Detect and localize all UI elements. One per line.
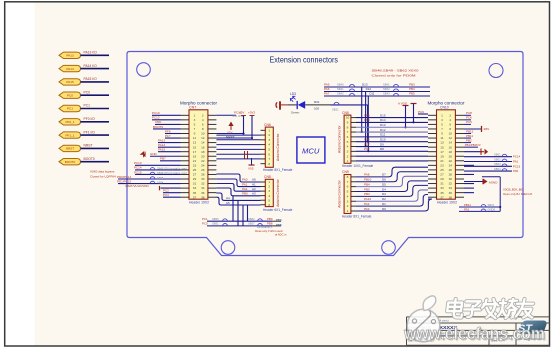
svg-text:11: 11 (193, 136, 196, 140)
svg-text:5: 5 (441, 123, 443, 127)
CN7 pin stub left (181, 137, 190, 139)
CN10 pin stub left (428, 114, 437, 116)
CN10 pin stub right (455, 187, 464, 189)
watermark glyph 0 (446, 299, 463, 317)
CN10 pin stub left (428, 128, 437, 130)
CN10 pin stub right (455, 123, 464, 125)
wire CN7 left PF6 (165, 133, 181, 135)
svg-text:PA15: PA15 (66, 80, 74, 84)
SB right PC14 (464, 156, 512, 158)
svg-text:D8: D8 (380, 147, 384, 151)
svg-text:3: 3 (268, 138, 270, 142)
wire vertical from LED (367, 105, 369, 142)
SB row PC1 (207, 220, 272, 222)
CN5 pin stub (351, 155, 356, 157)
svg-text:SB48 Off if crystal is used: SB48 Off if crystal is used (157, 171, 187, 175)
svg-text:PC3: PC3 (163, 193, 169, 197)
svg-text:4: 4 (268, 194, 270, 198)
svg-text:4: 4 (202, 118, 204, 122)
svg-text:SB01: SB01 (494, 153, 501, 157)
wire row5 to +3V3 (216, 137, 252, 139)
svg-text:SB56: SB56 (212, 217, 219, 221)
svg-text:PD1/PC15: PD1/PC15 (117, 179, 132, 183)
svg-text:PB11: PB11 (464, 203, 471, 207)
SB right PA0 (464, 170, 512, 172)
svg-text:7: 7 (441, 127, 443, 131)
svg-text:D11: D11 (380, 133, 386, 137)
svg-text:SB48,SB49 - SB62 X0X0: SB48,SB49 - SB62 X0X0 (372, 69, 419, 73)
svg-text:32: 32 (201, 182, 205, 186)
SB row PC0 (207, 225, 272, 227)
svg-text:PC0: PC0 (202, 222, 208, 226)
svg-text:MCU: MCU (302, 147, 320, 156)
CN9 pin stub (351, 210, 356, 212)
svg-text:31: 31 (440, 182, 444, 186)
CN8 pin stub (261, 195, 266, 197)
CN7 pin stub left (181, 114, 190, 116)
svg-text:19: 19 (440, 154, 444, 158)
svg-text:23: 23 (440, 163, 444, 167)
svg-text:Close only if I2C1 used: Close only if I2C1 used (255, 229, 283, 233)
svg-text:CN7: CN7 (189, 105, 196, 109)
svg-text:A2: A2 (252, 187, 256, 191)
svg-text:10: 10 (201, 132, 205, 136)
CN5 pin stub (351, 136, 356, 138)
CN10 pin stub left (428, 164, 437, 166)
CN7 pin stub left (181, 142, 190, 144)
PB1/PB15 row (464, 146, 478, 148)
wire CN5 row (356, 146, 428, 148)
svg-text:BOOT0: BOOT0 (84, 157, 95, 161)
svg-text:27: 27 (440, 173, 444, 177)
svg-text:D13: D13 (362, 83, 368, 87)
wire CN10 right (464, 164, 474, 166)
power flag U5V (228, 122, 233, 127)
SB bottom row PA2 (459, 210, 500, 212)
svg-text:9: 9 (194, 132, 196, 136)
svg-text:PA10: PA10 (364, 197, 371, 201)
svg-text:17: 17 (193, 150, 197, 154)
wire CN7 left PA13 (158, 142, 181, 144)
svg-text:8: 8 (449, 127, 451, 131)
svg-text:PC14: PC14 (513, 155, 521, 159)
SB bridge row D12 (324, 91, 430, 93)
power symbol at LED (276, 102, 277, 107)
svg-text:25: 25 (440, 168, 444, 172)
CN7 pin stub right (208, 151, 217, 153)
CN7 pin stub left (181, 146, 190, 148)
svg-text:D2: D2 (382, 197, 386, 201)
svg-text:D13: D13 (380, 123, 386, 127)
svg-text:100: 100 (314, 106, 319, 110)
svg-text:PF7: PF7 (165, 134, 171, 138)
svg-text:SB03: SB03 (494, 162, 501, 166)
svg-text:PA2: PA2 (364, 202, 370, 206)
svg-text:33: 33 (193, 186, 197, 190)
CN7 pin stub left (181, 173, 190, 175)
CN7 pin stub right (208, 183, 217, 185)
CN7 pin stub left (181, 133, 190, 135)
svg-text:PA13 I/O: PA13 I/O (84, 51, 98, 55)
svg-text:8: 8 (347, 175, 349, 179)
CN7 pin stub right (208, 178, 217, 180)
wire CN9 D3 (356, 185, 428, 196)
svg-text:PA14: PA14 (158, 143, 165, 147)
svg-text:Header 10X1_Female: Header 10X1_Female (342, 164, 373, 168)
svg-text:22: 22 (201, 159, 205, 163)
svg-text:Header 8X1_Female: Header 8X1_Female (263, 168, 293, 172)
svg-text:16: 16 (449, 145, 453, 149)
port flag PF0_1 (59, 119, 81, 125)
CN7 pin stub left (181, 119, 190, 121)
svg-text:PB6: PB6 (364, 113, 370, 117)
wire CN7 left PC15 (135, 173, 181, 175)
svg-text:PF0_1: PF0_1 (65, 120, 74, 124)
wire vertical D13 (361, 87, 363, 132)
svg-text:BOOT0: BOOT0 (153, 125, 164, 129)
CN7 pin stub right (208, 114, 217, 116)
wire PB0 A3 (216, 188, 260, 196)
wire CN7 left PA14 (158, 146, 181, 148)
wire CN7 left PC2 (163, 192, 181, 194)
svg-text:4: 4 (268, 143, 270, 147)
svg-text:36: 36 (201, 191, 205, 195)
CN10 pin stub left (428, 137, 437, 139)
CN10 pin stub right (455, 164, 464, 166)
svg-text:26: 26 (449, 168, 453, 172)
CN10 pin stub left (428, 169, 437, 171)
svg-text:5: 5 (347, 190, 349, 194)
svg-text:PB0: PB0 (242, 192, 248, 196)
SB21 bridge (330, 104, 368, 106)
svg-text:PC0: PC0 (84, 90, 91, 94)
wire vertical to SB cluster (232, 196, 234, 221)
CN7 pin stub right (208, 142, 217, 144)
svg-text:LD3: LD3 (290, 92, 296, 96)
CN6 pin stub (261, 153, 266, 155)
wire PA4 A2 (216, 184, 260, 192)
svg-text:PC14: PC14 (134, 166, 142, 170)
CN10 pin stub left (428, 178, 437, 180)
connector CN10 body (437, 110, 456, 199)
svg-text:13: 13 (193, 141, 197, 145)
CN10 pin stub left (428, 196, 437, 198)
CN6 pin stub (261, 144, 266, 146)
svg-text:Header 19X2: Header 19X2 (189, 200, 209, 204)
svg-text:10: 10 (449, 132, 453, 136)
svg-text:PA14 I/O: PA14 I/O (84, 64, 98, 68)
svg-text:PB8: PB8 (276, 223, 282, 227)
CN6 pin stub (261, 139, 266, 141)
svg-text:VDD: VDD (155, 120, 162, 124)
CN8 pin stub (261, 204, 266, 206)
CN10 pin stub left (428, 133, 437, 135)
svg-text:2: 2 (202, 113, 204, 117)
svg-text:D9: D9 (380, 142, 384, 146)
svg-text:B52 JP6H: B52 JP6H (233, 114, 245, 118)
svg-text:12: 12 (449, 136, 453, 140)
svg-text:38: 38 (201, 195, 205, 199)
CN7 pin stub right (208, 133, 217, 135)
CN10 pin stub right (455, 146, 464, 148)
CN5 pin stub (351, 131, 356, 133)
wire CN7 left PD0/PC14 (118, 178, 181, 180)
wire CN9 D1 (356, 195, 428, 207)
svg-text:A VDD: A VDD (398, 101, 408, 105)
CN6 pin stub (261, 134, 266, 136)
mounting hole top-right (489, 64, 503, 78)
svg-text:7: 7 (347, 180, 349, 184)
wire CN7 left PB7 (160, 160, 181, 162)
CN5 pin stub (351, 146, 356, 148)
wire CN5 row (356, 160, 428, 162)
svg-text:www.elecfans.com: www.elecfans.com (403, 325, 545, 343)
wire CN10 right PB12 (464, 133, 471, 135)
svg-text:3: 3 (441, 118, 443, 122)
svg-text:29: 29 (193, 177, 197, 181)
svg-text:2: 2 (449, 113, 451, 117)
svg-text:34: 34 (449, 186, 453, 190)
wire CN5 row (356, 131, 428, 133)
svg-text:1: 1 (441, 113, 443, 117)
svg-text:12: 12 (201, 136, 205, 140)
SB bridge row D13 (324, 86, 430, 88)
wire CN9 D7 (356, 167, 428, 177)
wire CN10 right PB2 (464, 142, 471, 144)
svg-text:3: 3 (194, 118, 196, 122)
svg-text:VSS: VSS (248, 167, 254, 171)
svg-text:PB10: PB10 (364, 178, 372, 182)
svg-text:PA0: PA0 (242, 178, 248, 182)
CN10 pin stub right (455, 173, 464, 175)
svg-text:4: 4 (347, 194, 349, 198)
svg-text:6: 6 (347, 185, 349, 189)
capacitor C30 (244, 151, 246, 159)
svg-text:5: 5 (268, 198, 270, 202)
wire CN9 D0 (356, 199, 432, 211)
wire CN5 row (356, 121, 428, 123)
resistor R31 labels (305, 104, 330, 106)
svg-text:6: 6 (268, 203, 270, 207)
SB bottom row PB11 (459, 206, 500, 208)
wire CN7 PC11 (216, 114, 236, 116)
svg-text:PA1: PA1 (242, 182, 248, 186)
wire PA1 A1 (216, 179, 260, 187)
CN7 pin stub right (208, 155, 217, 157)
svg-text:18: 18 (201, 150, 205, 154)
svg-text:28: 28 (201, 173, 205, 177)
CN7 pin stub left (181, 169, 190, 171)
svg-text:PB7: PB7 (160, 157, 166, 161)
SB bridge row D11 (324, 95, 430, 97)
CN10 pin stub right (455, 151, 464, 153)
wire CN10 right (464, 173, 474, 175)
svg-text:NRST: NRST (66, 147, 75, 151)
svg-text:D7: D7 (382, 173, 386, 177)
svg-text:SB04: SB04 (494, 167, 501, 171)
port flag PA14 (59, 65, 81, 71)
svg-text:25: 25 (193, 168, 197, 172)
CN7 pin stub left (181, 183, 190, 185)
svg-text:37: 37 (440, 195, 444, 199)
svg-text:31: 31 (193, 182, 197, 186)
svg-text:Arduino Connector: Arduino Connector (338, 179, 342, 207)
svg-text:6: 6 (347, 135, 349, 139)
svg-text:PF1 I/O: PF1 I/O (84, 130, 96, 134)
wire CN5 row (356, 155, 428, 157)
svg-text:Arduino Connector: Arduino Connector (276, 133, 280, 161)
svg-text:BOOT0: BOOT0 (65, 160, 76, 164)
svg-text:D4: D4 (382, 187, 386, 191)
connector CN7 body (189, 110, 208, 199)
svg-text:PA9: PA9 (364, 147, 370, 151)
svg-text:PB2: PB2 (466, 138, 472, 142)
CN10 pin stub right (455, 142, 464, 144)
CN8 pin stub (261, 190, 266, 192)
svg-text:D11: D11 (369, 92, 375, 96)
svg-text:Closed only for PD0M: Closed only for PD0M (372, 74, 417, 78)
CN9 pin stub (351, 186, 356, 188)
svg-text:PA15: PA15 (158, 148, 165, 152)
svg-text:PF6: PF6 (165, 129, 171, 133)
svg-text:CN6: CN6 (264, 123, 271, 127)
svg-text:4: 4 (347, 145, 349, 149)
svg-text:PA2: PA2 (464, 207, 470, 211)
wire vertical D11 (367, 96, 369, 151)
svg-text:PA14: PA14 (66, 67, 74, 71)
CN10 pin stub right (455, 160, 464, 162)
CN7 pin stub left (181, 123, 190, 125)
wire CN7 left PA15 (158, 151, 181, 153)
wire from flag PC1 (81, 108, 110, 110)
svg-text:+5V: +5V (239, 111, 244, 115)
CN10 pin stub right (455, 169, 464, 171)
svg-text:8: 8 (268, 162, 270, 166)
svg-text:PC9: PC9 (418, 110, 424, 114)
CN5 pin stub (351, 160, 356, 162)
svg-text:11: 11 (440, 136, 443, 140)
svg-text:PC7: PC7 (364, 142, 370, 146)
CN10 pin stub right (455, 155, 464, 157)
svg-text:Arduino Connector: Arduino Connector (276, 178, 280, 206)
svg-text:19: 19 (193, 154, 197, 158)
svg-text:CN10: CN10 (440, 106, 449, 110)
svg-text:X0X0 data bypass: X0X0 data bypass (90, 170, 115, 174)
CN10 pin stub left (428, 119, 437, 121)
svg-text:PF1_1: PF1_1 (65, 133, 74, 137)
wire CN7 left PC10 (152, 114, 181, 116)
svg-text:D10: D10 (380, 138, 386, 142)
svg-text:A0: A0 (252, 178, 256, 182)
wire CN7 left PD1/PC15 (118, 183, 181, 185)
wire CN5 row (356, 150, 428, 152)
wire CN5 row (356, 117, 428, 119)
CN10 pin stub right (455, 178, 464, 180)
wire CN7 left PC3 (163, 196, 181, 198)
CN7 pin stub left (181, 178, 190, 180)
wire CN5 row (356, 141, 428, 143)
svg-text:2: 2 (268, 185, 270, 189)
CN9 pin stub (351, 200, 356, 202)
CN10 pin stub left (428, 146, 437, 148)
CN10 pin stub left (428, 192, 437, 194)
svg-text:GND8: GND8 (488, 207, 496, 211)
svg-text:14: 14 (449, 141, 453, 145)
CN7 pin stub right (208, 196, 217, 198)
svg-text:D0: D0 (382, 207, 386, 211)
svg-text:SB55: SB55 (157, 176, 164, 180)
svg-text:5: 5 (268, 147, 270, 151)
wire CN7 left VBAT (161, 187, 181, 189)
svg-text:38: 38 (449, 195, 453, 199)
svg-text:Extension connectors: Extension connectors (270, 56, 339, 65)
wire from flag PF1_1 (81, 134, 110, 136)
wire vertical to SB cluster (247, 205, 249, 221)
CN5 pin stub (351, 117, 356, 119)
svg-text:27: 27 (193, 173, 197, 177)
CN7 pin stub left (181, 160, 190, 162)
svg-text:CN9: CN9 (342, 170, 349, 174)
svg-text:SB62: SB62 (248, 217, 255, 221)
SB right PA1 (464, 161, 512, 163)
svg-text:SB41: SB41 (337, 87, 344, 91)
CN10 pin stub right (455, 114, 464, 116)
svg-text:A3: A3 (252, 192, 256, 196)
CN8 pin stub (261, 186, 266, 188)
CN7 pin stub left (181, 155, 190, 157)
GND symbol right (464, 151, 481, 153)
svg-text:6: 6 (202, 123, 204, 127)
CN7 pin stub right (208, 128, 217, 130)
CN10 pin stub right (455, 183, 464, 185)
svg-text:SB21: SB21 (332, 108, 339, 112)
CN10 pin stub right (455, 119, 464, 121)
port flag NRST (59, 145, 81, 151)
svg-text:35: 35 (193, 191, 197, 195)
wire CN10 right PC6 (464, 119, 471, 121)
E5V power right (464, 128, 481, 130)
CN10 pin stub left (428, 160, 437, 162)
svg-text:PB6: PB6 (364, 138, 370, 142)
svg-text:PA13: PA13 (158, 138, 165, 142)
wire CN10 right PB11 (464, 137, 471, 139)
svg-text:PC5: PC5 (466, 120, 472, 124)
CN7 pin stub right (208, 160, 217, 162)
svg-text:D6: D6 (382, 178, 386, 182)
SB right PC15 (464, 165, 512, 167)
svg-text:PC15: PC15 (513, 164, 521, 168)
svg-text:23: 23 (193, 163, 197, 167)
svg-text:7: 7 (194, 127, 196, 131)
svg-text:SB54: SB54 (157, 181, 164, 185)
svg-text:7: 7 (347, 130, 349, 134)
wire from flag PA14 (81, 68, 110, 70)
svg-text:6: 6 (268, 152, 270, 156)
CN7 pin stub left (181, 187, 190, 189)
wire from flag PF0_1 (81, 121, 110, 123)
wire CN7 left VDD (155, 123, 181, 125)
svg-text:SB01: SB01 (488, 203, 495, 207)
svg-text:PD0/PC14: PD0/PC14 (117, 175, 132, 179)
MCU U5 (297, 137, 325, 163)
CN7 pin stub right (208, 192, 217, 194)
svg-text:SB49 Off if crystal is used: SB49 Off if crystal is used (157, 167, 187, 171)
wire AGND net loop (482, 176, 500, 178)
title block (407, 317, 550, 345)
svg-text:Morpho connector: Morpho connector (180, 100, 217, 105)
svg-text:Open only B-I F0E3 HX: Open only B-I F0E3 HX (503, 192, 532, 196)
svg-text:PA7: PA7 (324, 92, 330, 96)
